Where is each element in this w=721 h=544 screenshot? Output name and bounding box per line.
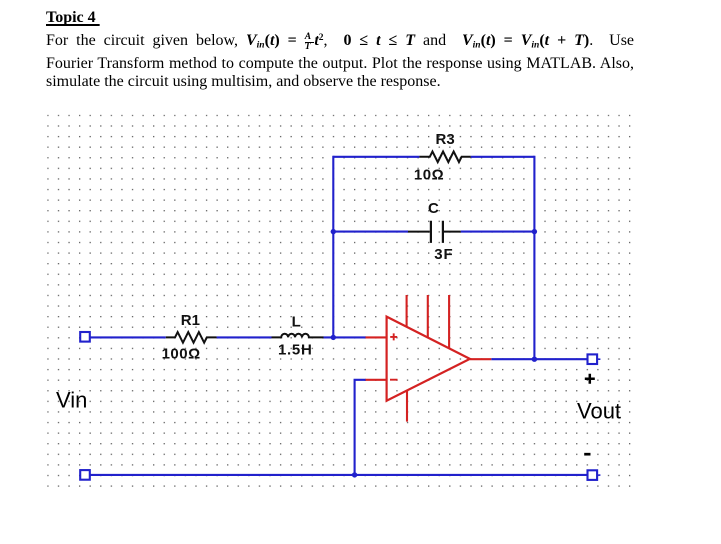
svg-text:1.5H: 1.5H	[278, 341, 313, 358]
svg-text:3F: 3F	[434, 246, 453, 263]
label Vin	[56, 388, 87, 413]
grid dots	[47, 115, 631, 488]
junction node left of capacitor	[331, 229, 336, 234]
wire top-loop horizontal left (node out of R3 left)	[333, 156, 419, 158]
junction node right of capacitor	[532, 229, 537, 234]
paragraph line 3	[46, 72, 634, 92]
wire op-amp output to Vout+ terminal	[491, 358, 587, 360]
label C	[428, 200, 439, 217]
wire capacitor row left	[333, 231, 408, 233]
junction node on bottom rail	[352, 472, 357, 477]
svg-text:C: C	[428, 200, 439, 217]
wire L to op-amp noninverting input	[324, 336, 367, 338]
svg-text:Vin: Vin	[56, 388, 87, 413]
Vout plus polarity mark	[585, 374, 595, 384]
op-amp inverting pin stub	[366, 379, 387, 381]
value 1.5H	[278, 341, 313, 358]
value 10Ω	[414, 167, 444, 184]
terminal Vout +	[588, 354, 598, 364]
op-amp minus symbol	[390, 379, 398, 381]
wire inverting input to ground rail	[355, 380, 366, 475]
svg-text:100Ω: 100Ω	[162, 345, 201, 362]
wire top-loop horizontal right	[471, 156, 535, 158]
svg-text:L: L	[292, 313, 301, 330]
op-amp U1 body	[387, 317, 470, 401]
junction node at noninverting input	[331, 335, 336, 340]
terminal Vin +	[80, 332, 90, 342]
label R1	[181, 312, 200, 329]
terminal Vin -	[80, 470, 90, 480]
op-amp power pin 2	[427, 295, 429, 338]
wire R1 to L	[217, 336, 272, 338]
terminal Vout + pin stub	[598, 358, 600, 360]
label R3	[436, 131, 455, 148]
svg-text:R3: R3	[436, 131, 455, 148]
wire right vertical (R3/C right leg to output)	[533, 156, 535, 359]
value 100Ω	[162, 345, 201, 362]
wire capacitor row right	[461, 231, 535, 233]
label L	[292, 313, 301, 330]
paragraph line 2	[46, 54, 634, 74]
op-amp power pin 1	[406, 295, 408, 327]
title Topic 4	[46, 8, 634, 28]
svg-text:R1: R1	[181, 312, 200, 329]
resistor R3	[419, 152, 470, 163]
op-amp output pin stub	[470, 358, 491, 360]
junction node at output	[532, 357, 537, 362]
wire bottom rail	[90, 474, 587, 476]
op-amp power pin 3	[448, 295, 450, 348]
Vout minus polarity mark	[584, 453, 590, 456]
svg-text:10Ω: 10Ω	[414, 167, 444, 184]
label Vout	[577, 398, 621, 423]
svg-text:Vout: Vout	[577, 398, 621, 423]
paragraph line 1	[46, 28, 634, 56]
terminal Vout -	[588, 470, 598, 480]
op-amp bottom power pin	[406, 390, 408, 421]
wire Vin+ terminal to R1	[90, 336, 166, 338]
op-amp noninverting pin stub	[366, 336, 387, 338]
terminal Vout - pin stub	[598, 474, 600, 476]
resistor R1	[166, 332, 217, 343]
op-amp plus symbol	[390, 333, 397, 340]
inductor L	[272, 334, 324, 338]
capacitor C	[408, 221, 461, 243]
wire left vertical (R3/C left leg)	[332, 156, 334, 338]
value 3F	[434, 246, 453, 263]
